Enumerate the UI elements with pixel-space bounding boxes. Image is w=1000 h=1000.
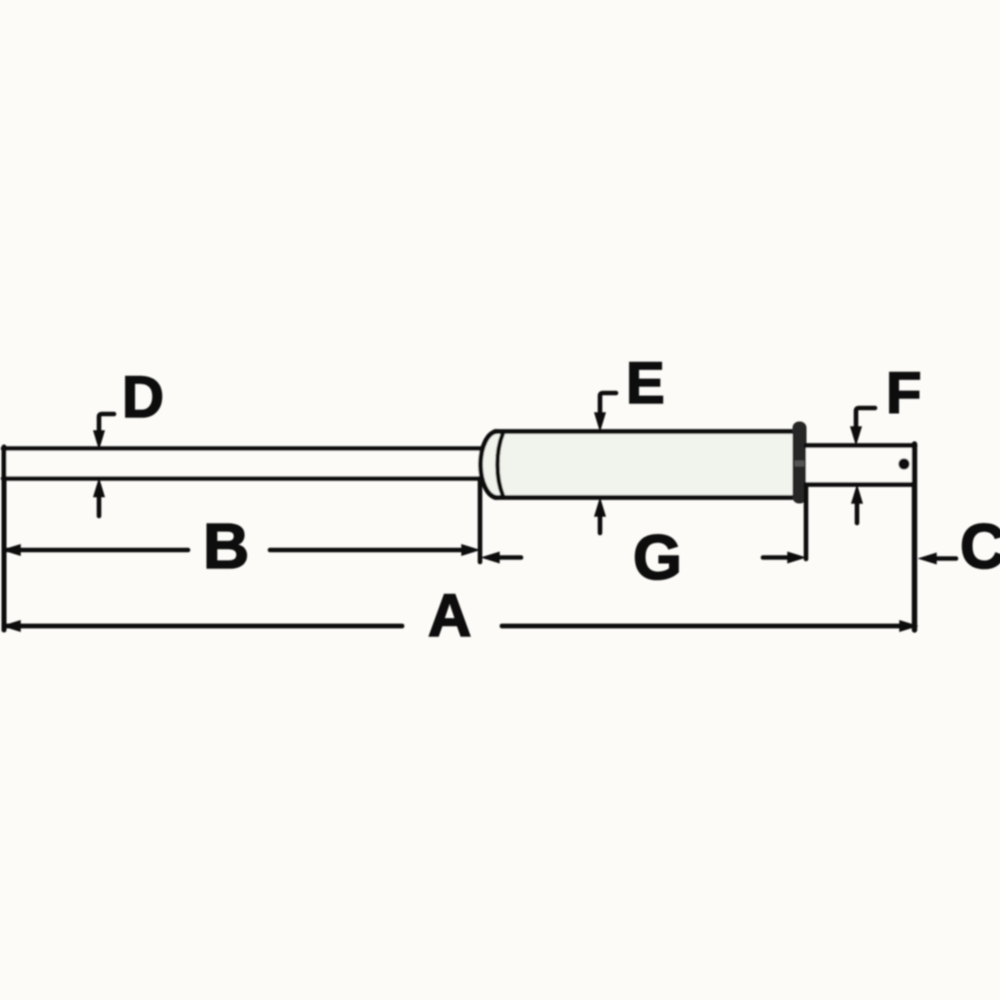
dimension A right arrowhead [900, 621, 916, 631]
inlet pipe (thin tube) body fill [4, 449, 482, 478]
svg-text:E: E [626, 351, 665, 416]
muffler body (cylinder) fill [480, 432, 800, 498]
dimension B line right segment [270, 548, 472, 553]
inlet pipe top edge [3, 446, 483, 451]
dimension C arrowhead [920, 554, 936, 564]
dimension F callout bracket [856, 408, 875, 433]
dimension F up arrowhead [852, 487, 862, 504]
dimension B left arrowhead [4, 545, 20, 555]
extension line right (x=914.5) [912, 444, 917, 630]
dimension E lower arrow tail [598, 513, 603, 533]
dimension D lower arrow tail [97, 494, 102, 516]
outlet pipe top edge [806, 443, 915, 448]
dimension B line left segment [7, 548, 188, 553]
dimension F lower arrow tail [855, 500, 860, 523]
muffler body bottom edge [495, 495, 800, 500]
outlet pipe end hole (dot) [898, 458, 909, 469]
inlet pipe bottom edge [3, 476, 482, 481]
dimension D down arrowhead [94, 431, 104, 448]
dimension G right arrowhead [788, 553, 804, 563]
svg-text:C: C [960, 512, 1000, 582]
dimension E up arrowhead [595, 500, 605, 517]
dimension D callout bracket [99, 414, 114, 437]
dimension E down arrowhead [595, 413, 605, 430]
dimension G left arrowhead [483, 553, 499, 563]
dimension D up arrowhead [94, 480, 104, 497]
dimension G line left segment [498, 555, 521, 560]
dimension B right arrowhead [462, 545, 478, 555]
dimension E callout bracket [600, 393, 616, 419]
extension line left (x=4) [2, 447, 7, 630]
dimension G line right segment [763, 555, 787, 560]
muffler right end dark band [793, 422, 807, 504]
extension line under muffler left end [478, 478, 483, 562]
muffler body left cap inner arc [497, 433, 503, 496]
dimension C line [935, 556, 956, 561]
outlet pipe fill [806, 446, 913, 484]
svg-text:F: F [886, 361, 921, 426]
dimension A left arrowhead [4, 621, 20, 631]
dimension A line right segment [502, 624, 910, 629]
dimension F down arrowhead [851, 427, 861, 444]
muffler band light notch [795, 461, 805, 467]
extension line under outlet pipe left [804, 486, 809, 559]
svg-text:D: D [122, 365, 164, 430]
outlet pipe bottom edge [806, 482, 913, 487]
svg-text:B: B [203, 510, 249, 582]
dimension A line left segment [7, 624, 402, 629]
svg-text:A: A [428, 582, 471, 649]
svg-text:G: G [633, 523, 682, 593]
muffler body top edge [495, 429, 800, 434]
muffler body left rounded cap outer [480, 432, 497, 498]
